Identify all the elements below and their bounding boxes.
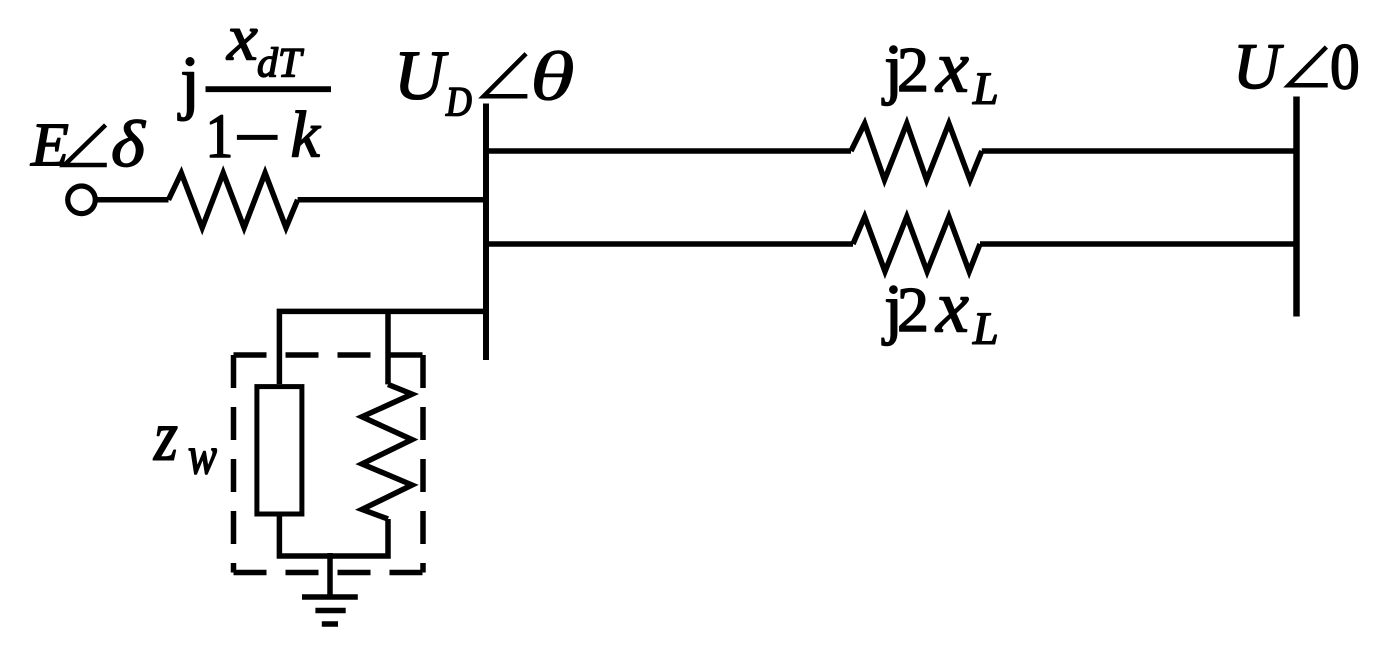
label x of line 2 <box>935 298 968 332</box>
resistor j x_dT/(1-k) zigzag <box>169 173 298 228</box>
dashed z_w enclosure left <box>231 355 237 573</box>
terminal circle (source E) <box>68 186 96 214</box>
label L subscript of line 1 <box>973 74 997 104</box>
impedance box element of z_w <box>257 387 302 514</box>
wire line 2 to bus U <box>980 241 1297 247</box>
angle symbol of E angle delta <box>65 125 107 165</box>
ground bar 2 <box>315 608 345 614</box>
ground stem <box>327 553 333 597</box>
wire bus D to line 1 resistor <box>486 148 851 154</box>
label dT subscript <box>258 47 304 77</box>
label theta of bus D <box>534 51 572 101</box>
label k of denominator <box>292 111 320 157</box>
label 2 of line 2 <box>900 289 926 331</box>
wire below impedance box to common node <box>279 514 388 556</box>
bus bar U <box>1293 97 1300 317</box>
label x of line 1 <box>935 58 968 92</box>
minus sign in 1-k <box>237 135 278 140</box>
label x of numerator <box>226 29 257 59</box>
wire from source to reactance <box>98 197 169 203</box>
wire line 1 to bus U <box>982 148 1297 154</box>
bus bar U_D <box>483 104 489 361</box>
angle symbol of U angle 0 <box>1289 47 1328 85</box>
label j of fraction <box>178 58 194 121</box>
wire bus D to z_w branch <box>279 311 486 384</box>
label 0 of bus right <box>1332 45 1357 90</box>
dashed z_w enclosure bottom <box>234 570 424 576</box>
label delta of source <box>113 120 146 167</box>
ground bar 3 <box>322 621 338 627</box>
label 1 of denominator <box>210 115 230 157</box>
label w subscript of z_w <box>189 449 217 474</box>
wire z_w resistor branch vertical <box>385 311 391 384</box>
fraction bar of x_dT/(1-k) <box>206 86 332 92</box>
ground bar 1 <box>302 594 358 600</box>
wire from reactance to bus D <box>298 197 486 203</box>
resistor j2x_L line 2 zigzag <box>853 217 980 272</box>
label E of source <box>30 125 68 166</box>
wire bus D to line 2 resistor <box>486 241 853 247</box>
angle symbol of U_D angle theta <box>484 54 528 97</box>
label 2 of line 1 <box>900 49 926 91</box>
resistor j2x_L line 1 zigzag <box>851 123 982 180</box>
label L subscript of line 2 <box>973 314 997 344</box>
label U of bus D <box>400 53 448 100</box>
label D subscript <box>446 88 472 116</box>
dashed z_w enclosure right <box>420 355 426 573</box>
resistor element of z_w (vertical zigzag) <box>362 384 412 519</box>
label j of line 2 <box>882 286 897 346</box>
dashed z_w enclosure top <box>234 352 424 358</box>
label z of z_w <box>153 427 177 460</box>
label j of line 1 <box>882 46 897 106</box>
label U of bus right <box>1239 45 1284 88</box>
